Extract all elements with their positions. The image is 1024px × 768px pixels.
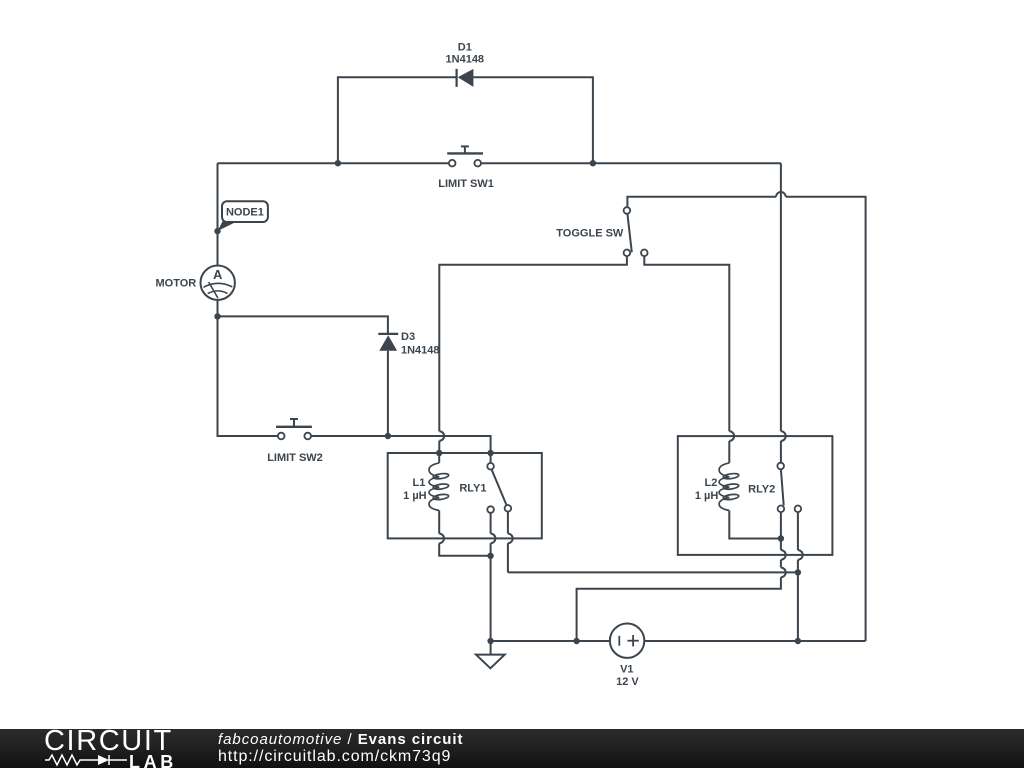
svg-text:LIMIT SW2: LIMIT SW2 [267, 452, 323, 464]
wire hop x=490 over RLY1 bottom edge [491, 534, 496, 544]
pushbutton LIMIT SW1 [447, 146, 483, 166]
junction dot ground [487, 638, 493, 644]
wire x=781 between hops [780, 560, 782, 568]
wire top loop left D1 [338, 77, 457, 163]
wire LIMIT SW2 right to RLY1 pin [311, 436, 491, 453]
svg-text:1 µH: 1 µH [403, 490, 427, 502]
junction dot y572 x798 [795, 569, 801, 575]
inductor L1 [429, 463, 449, 511]
relay switch RLY1 [487, 463, 511, 513]
svg-text:LIMIT SW1: LIMIT SW1 [438, 178, 494, 190]
wire x=439 to RLY1 L1 pin [438, 441, 440, 453]
wire hop x=798 over RLY2 bottom edge [798, 550, 803, 560]
wire main horizontal y=163 right of LIMIT SW1 [481, 162, 781, 164]
wire RLY2 switch-left down from circle [780, 512, 782, 538]
wire motor bottom to LIMIT SW2 [218, 300, 278, 436]
wire L1 bottom [438, 511, 440, 534]
svg-text:L1: L1 [412, 477, 425, 489]
svg-text:L2: L2 [704, 477, 717, 489]
svg-text:1 µH: 1 µH [695, 490, 719, 502]
wire D3 to y436 [387, 351, 389, 436]
wire left vertical to motor [217, 163, 219, 265]
wire x=508 to corner y=572 [507, 543, 509, 572]
node NODE1 callout [218, 201, 268, 231]
wire hop x=508 over RLY1 bottom edge [508, 534, 513, 544]
wire RLY1 switch-left down from circle [490, 513, 492, 534]
junction dot x577 bottom [573, 638, 579, 644]
voltage source V1 [610, 624, 644, 658]
wire hop x=439 over RLY1 bottom edge [439, 534, 444, 544]
wire toggle top [627, 197, 776, 208]
wire toggle bottom-left to x=439 down [439, 256, 627, 431]
junction dot L2 bottom [778, 535, 784, 541]
junction dot NODE1 [214, 228, 220, 234]
wire L2 bottom to junction [729, 511, 781, 539]
wire y=572 from RLY1 to x=798 [508, 571, 798, 573]
wire toggle bottom-right to x=729 down [644, 256, 729, 431]
wire y=197 to x=866 down to bottom [786, 197, 866, 641]
inductor L2 [719, 463, 739, 511]
wire hop x=439 over y=436 [439, 431, 444, 441]
svg-text:TOGGLE SW: TOGGLE SW [556, 228, 624, 240]
svg-text:12 V: 12 V [616, 676, 639, 688]
toggle switch TOGGLE SW [624, 207, 648, 256]
wire RLY2 switch-right down [797, 512, 799, 550]
junction dot motor bottom [214, 313, 220, 319]
wire x=781 to RLY2 switch [780, 441, 782, 463]
ground [476, 655, 505, 669]
junction dot D1 left [335, 160, 341, 166]
footer text [218, 731, 463, 748]
wire RLY1 switch pin to circle [490, 453, 492, 463]
relay box RLY1 [388, 453, 542, 538]
svg-text:RLY1: RLY1 [459, 482, 486, 494]
wire x=781 below junction [780, 539, 782, 551]
wire hop x=781 over y=572 wire [781, 568, 786, 578]
diode D3 [378, 334, 398, 351]
junction dot RLY1 L1 pin [436, 450, 442, 456]
wire bottom right of V1 [644, 640, 865, 642]
diode D1 [457, 69, 474, 87]
relay box RLY2 [678, 436, 833, 555]
wire hop x=781 over RLY2 top edge [781, 431, 786, 441]
wire right vertical x=781 upper [780, 163, 782, 431]
relay switch RLY2 [777, 463, 801, 512]
junction dot D3 bottom [385, 433, 391, 439]
wire hop y=197 over x=781 [776, 192, 786, 197]
footer bar [0, 729, 1024, 768]
junction dot L1 bottom [487, 553, 493, 559]
junction dot D1 right [590, 160, 596, 166]
svg-text:RLY2: RLY2 [748, 484, 775, 496]
wire main horizontal y=163 left of LIMIT SW1 [218, 162, 449, 164]
wire x=729 to L2 coil [728, 441, 730, 463]
wire hop x=781 over RLY2 bottom edge [781, 550, 786, 560]
motor ammeter [201, 266, 235, 300]
wire hop x=729 over RLY2 top edge [729, 431, 734, 441]
wire node to D3 [218, 316, 388, 334]
svg-text:V1: V1 [620, 664, 633, 676]
wire x=798 to bottom wire [797, 560, 799, 641]
wire x=490 to ground junction [490, 543, 492, 641]
wire L1 bottom to junction [439, 543, 490, 556]
svg-text:A: A [213, 267, 223, 282]
wire x=781 to y=589 to x=577 down [577, 577, 781, 641]
junction dot x798 bottom [795, 638, 801, 644]
junction dot RLY1 switch pin [487, 450, 493, 456]
svg-text:D3: D3 [401, 331, 415, 343]
wire RLY1 switch-right down from circle [507, 512, 509, 534]
wire ground stub [490, 641, 492, 655]
svg-text:1N4148: 1N4148 [401, 344, 440, 356]
wire RLY1 L1 pin to coil [438, 453, 440, 463]
svg-text:NODE1: NODE1 [226, 207, 264, 219]
footer logo CIRCUIT LAB [44, 727, 173, 756]
svg-text:D1: D1 [458, 41, 472, 53]
wire top loop right D1 [473, 77, 593, 163]
wire bottom left of V1 [491, 640, 610, 642]
svg-text:1N4148: 1N4148 [446, 53, 485, 65]
pushbutton LIMIT SW2 [276, 419, 312, 439]
svg-text:MOTOR: MOTOR [156, 278, 197, 290]
